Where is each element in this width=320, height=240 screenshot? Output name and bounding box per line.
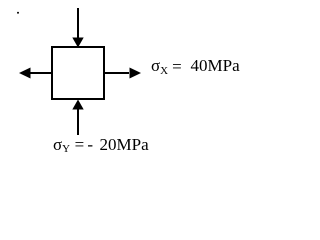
wire: top arrow shaft xyxy=(77,8,79,39)
label sigma_x xyxy=(151,57,182,74)
arrowhead top (pointing down onto square) xyxy=(72,38,83,48)
stray dot xyxy=(17,12,19,14)
arrowhead right (pointing outward) xyxy=(130,68,142,79)
wire: left arrow shaft xyxy=(30,72,52,74)
label sigma_y xyxy=(53,136,93,153)
arrowhead bottom (pointing up onto square) xyxy=(72,100,83,110)
wire: right arrow shaft xyxy=(104,72,129,74)
stress element square xyxy=(52,47,104,99)
label -20MPa value xyxy=(100,136,149,153)
arrowhead left (pointing outward) xyxy=(19,68,31,79)
wire: bottom arrow shaft xyxy=(77,108,79,135)
label 40MPa value xyxy=(191,57,240,74)
